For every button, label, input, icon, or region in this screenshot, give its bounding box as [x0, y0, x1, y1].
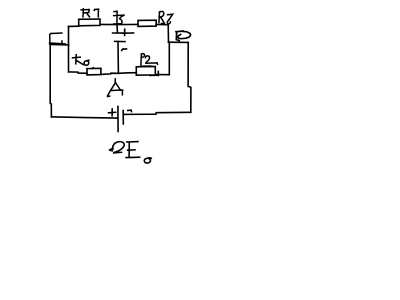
- wire R3 to node D corner: [156, 24, 168, 26]
- wire battery to bottom left: [52, 117, 118, 118]
- wire inner bottom left to R0: [69, 72, 88, 73]
- wire inner right vertical: [168, 42, 170, 74]
- wire node B to R3: [117, 23, 138, 25]
- wire R2 to inner right: [155, 74, 169, 76]
- node B: [114, 11, 124, 24]
- wire bottom right to battery: [124, 112, 191, 114]
- wire outer left vertical: [50, 44, 51, 117]
- label R2: [141, 54, 158, 65]
- resistor R2: [136, 66, 158, 75]
- wire node D to outer right: [169, 41, 189, 43]
- wire R0 to capacitor junction: [101, 73, 119, 74]
- wire outer right vertical: [188, 42, 191, 112]
- label R3: [159, 11, 173, 23]
- label R0: [73, 55, 89, 66]
- wire node C stub to inner left: [50, 44, 68, 46]
- battery 2E0: [109, 106, 132, 131]
- wire R1 to node B: [100, 23, 117, 25]
- resistor R3: [138, 20, 156, 26]
- wire capacitor junction to R2: [118, 72, 136, 75]
- capacitor C1: [113, 25, 134, 74]
- resistor R0: [87, 68, 101, 75]
- ammeter label A: [107, 79, 123, 97]
- wire inner left vertical: [68, 27, 70, 72]
- wire node D vertical: [167, 25, 169, 43]
- wire top-left (node C corner to R1): [69, 25, 79, 28]
- node D: [176, 31, 191, 41]
- resistor R1: [79, 19, 100, 26]
- label 2E0: [110, 142, 152, 163]
- label R1: [81, 9, 99, 17]
- node C: [50, 33, 65, 44]
